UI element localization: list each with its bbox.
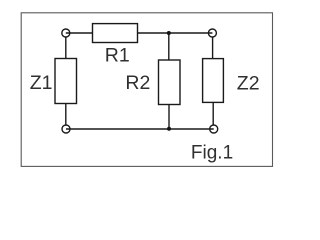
svg-text:R1: R1 <box>105 44 130 66</box>
svg-text:Z2: Z2 <box>237 73 260 95</box>
svg-text:Z1: Z1 <box>30 72 53 94</box>
svg-text:Fig.1: Fig.1 <box>191 143 233 164</box>
svg-text:R2: R2 <box>125 72 150 94</box>
